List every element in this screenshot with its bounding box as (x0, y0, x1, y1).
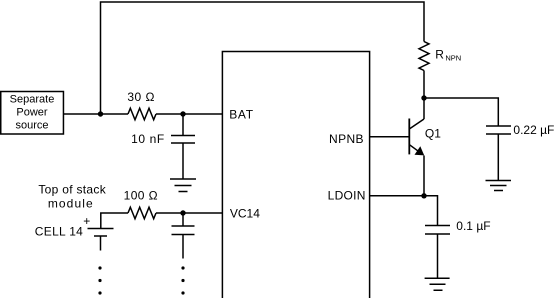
svg-text:+: + (83, 214, 90, 228)
svg-text:0.22 µF: 0.22 µF (513, 123, 554, 137)
svg-text:100 Ω: 100 Ω (124, 189, 158, 203)
svg-text:LDOIN: LDOIN (328, 188, 366, 202)
svg-text:BAT: BAT (229, 108, 254, 122)
svg-text:10 nF: 10 nF (131, 132, 165, 146)
svg-text:Power: Power (16, 106, 48, 118)
svg-text:Q1: Q1 (425, 127, 441, 141)
svg-text:0.1 µF: 0.1 µF (456, 219, 490, 233)
svg-text:Top of stack: Top of stack (38, 182, 106, 196)
svg-text:30 Ω: 30 Ω (127, 90, 155, 104)
svg-text:module: module (48, 197, 94, 211)
svg-text:R: R (435, 48, 444, 62)
svg-text:Separate: Separate (10, 93, 55, 105)
svg-text:VC14: VC14 (230, 206, 260, 220)
svg-text:NPN: NPN (445, 54, 461, 63)
svg-text:source: source (15, 120, 48, 132)
svg-text:NPNB: NPNB (329, 132, 364, 146)
svg-text:CELL 14: CELL 14 (35, 224, 83, 238)
